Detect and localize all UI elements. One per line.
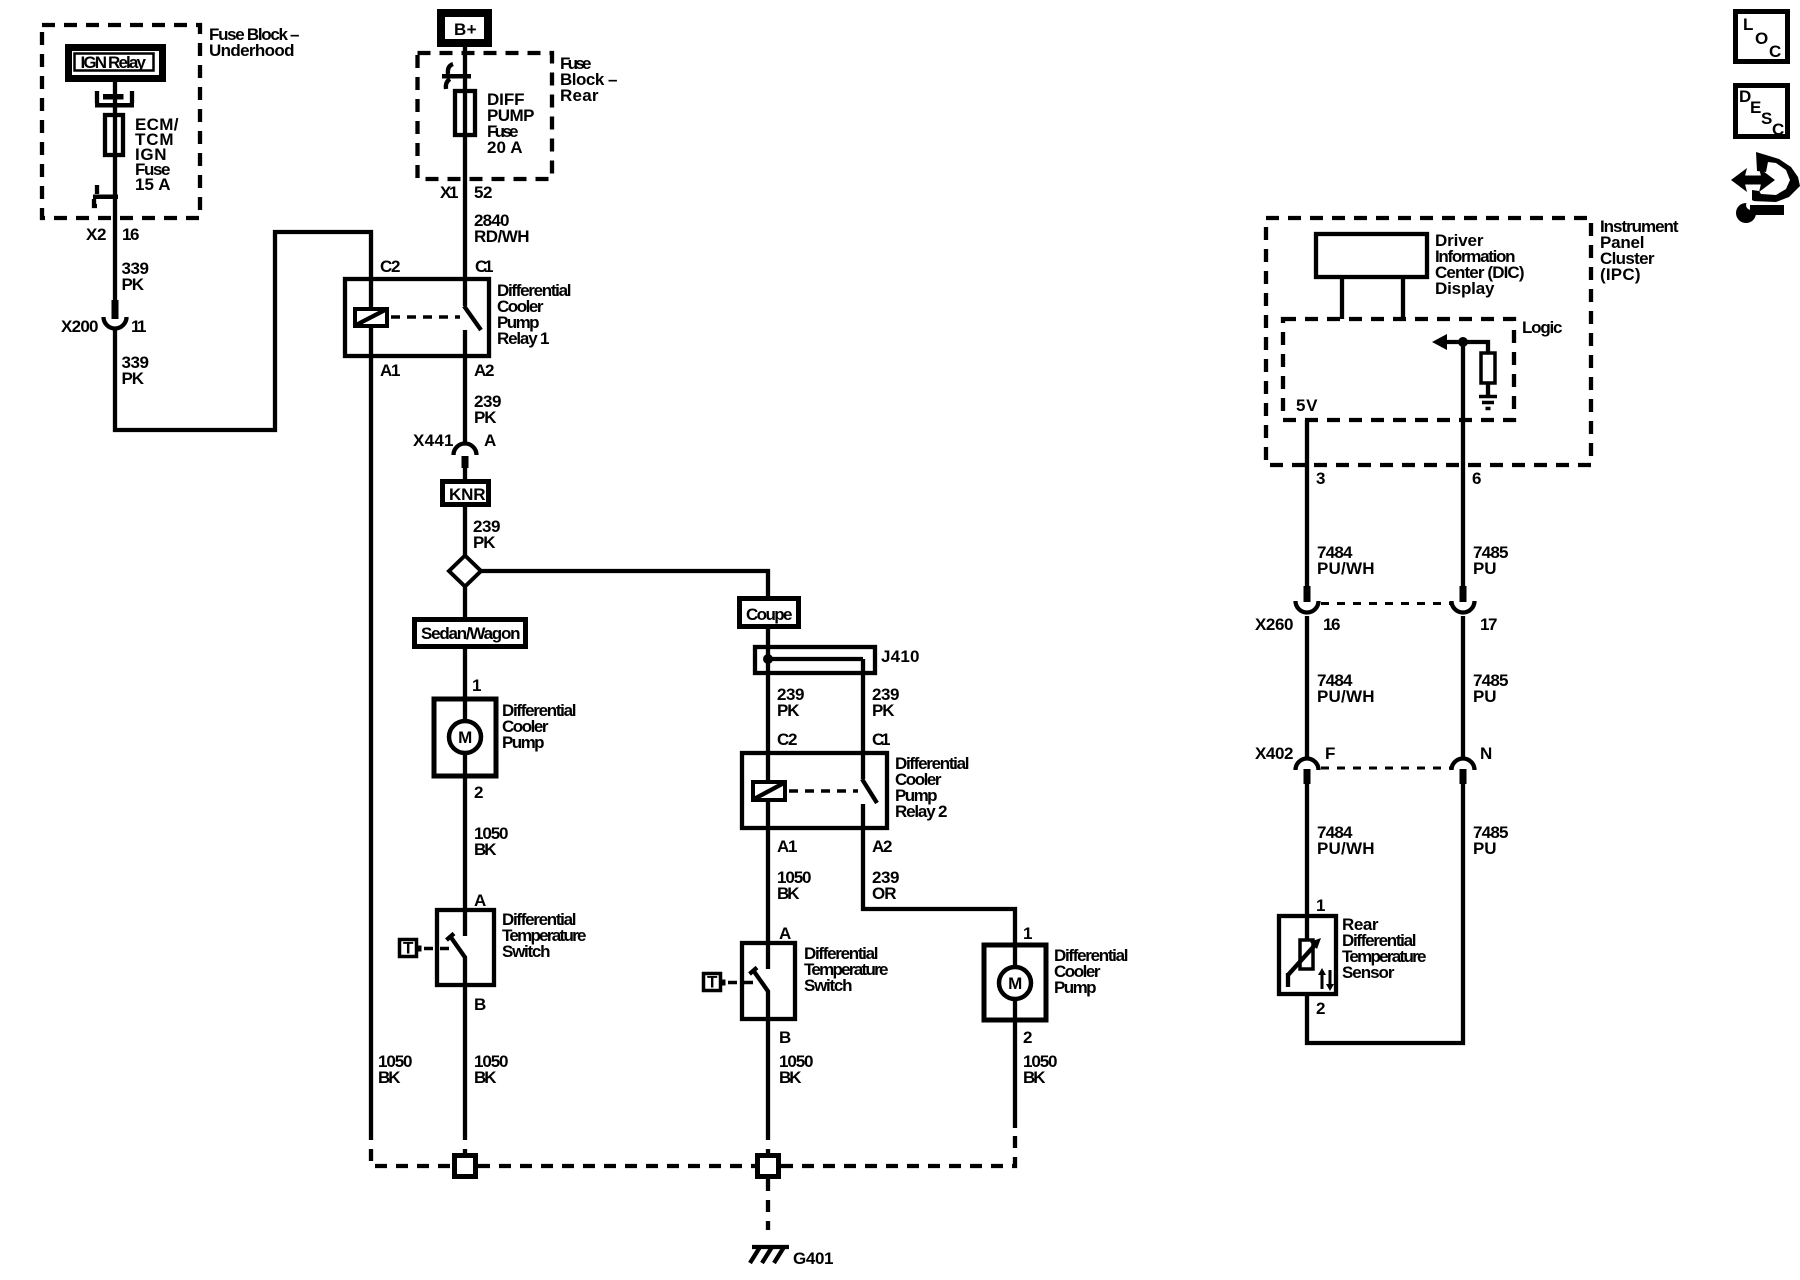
- dashed wire splice S2 to ground: [766, 1179, 770, 1230]
- Coupe tag box: [740, 599, 799, 627]
- wire splice to Coupe branch: [478, 571, 768, 596]
- svg-text:15 A: 15 A: [135, 175, 170, 194]
- DIC display box: [1316, 234, 1427, 277]
- svg-text:A1: A1: [380, 361, 400, 380]
- KNR box: [443, 482, 489, 505]
- svg-text:KNR: KNR: [449, 485, 485, 504]
- wire X260 to X402 right: [1461, 616, 1465, 758]
- dashed ground bus: [478, 1164, 755, 1168]
- svg-text:A: A: [484, 431, 496, 450]
- svg-text:Underhood: Underhood: [209, 41, 294, 60]
- temp switch1 T sensor box: [400, 939, 422, 958]
- svg-text:B: B: [474, 995, 486, 1014]
- svg-text:PK: PK: [872, 701, 895, 720]
- svg-text:1: 1: [1316, 896, 1325, 915]
- svg-text:1: 1: [472, 676, 481, 695]
- svg-text:BK: BK: [474, 1068, 497, 1087]
- svg-text:B: B: [779, 1028, 791, 1047]
- splice diamond node: [449, 556, 481, 587]
- svg-text:B+: B+: [454, 20, 477, 39]
- connector X402 socket right: [1452, 759, 1475, 771]
- wire B+ down through fuse to relay1 C1: [463, 47, 467, 306]
- sensor up-down arrows: [1318, 968, 1334, 991]
- fuse block underhood dashed box: [42, 25, 200, 218]
- Sedan/Wagon tag box: [415, 620, 526, 647]
- connector X260 pin left: [1304, 586, 1311, 602]
- wire relay K2 A1 to temp switch2: [766, 800, 770, 969]
- svg-text:X200: X200: [61, 317, 98, 336]
- logic dashed box: [1283, 319, 1514, 420]
- svg-text:Sensor: Sensor: [1342, 963, 1395, 982]
- svg-text:T: T: [707, 973, 718, 992]
- relay K1 coil: [355, 309, 387, 326]
- dashed wire temp switch1 to splice: [463, 1128, 467, 1153]
- J410 junction dot: [763, 654, 773, 664]
- motor pump1 circle: [449, 721, 481, 753]
- logic ground symbol: [1479, 397, 1497, 409]
- svg-text:Pump: Pump: [502, 733, 544, 752]
- wire IPC pin3 to X260: [1305, 420, 1309, 589]
- motor pump2 box: [984, 945, 1046, 1020]
- svg-text:6: 6: [1472, 469, 1481, 488]
- logic junction dot: [1458, 337, 1468, 347]
- wire Coupe to J410: [766, 629, 770, 782]
- LOC legend box: [1736, 12, 1788, 62]
- IGN Relay box: [69, 48, 163, 79]
- wire X260 to X402 left: [1305, 616, 1309, 758]
- svg-text:C: C: [1772, 120, 1784, 139]
- temp switch2 box: [742, 943, 795, 1019]
- temp switch2 T sensor box: [704, 973, 726, 992]
- wire Sedan/Wagon to pump1: [463, 649, 467, 721]
- svg-text:16: 16: [1323, 615, 1340, 634]
- svg-text:PK: PK: [473, 533, 496, 552]
- svg-text:Switch: Switch: [502, 942, 550, 961]
- splice pack J410 box: [755, 647, 875, 673]
- svg-text:PK: PK: [777, 701, 800, 720]
- svg-text:A1: A1: [777, 837, 797, 856]
- svg-text:2: 2: [474, 783, 483, 802]
- svg-text:PK: PK: [474, 408, 497, 427]
- IGN relay contact symbol: [95, 91, 134, 108]
- svg-text:Switch: Switch: [804, 976, 852, 995]
- svg-text:M: M: [1008, 974, 1022, 993]
- connector X200 pin: [112, 300, 119, 319]
- wire pump1 to temp switch1: [463, 753, 467, 936]
- svg-text:BK: BK: [779, 1068, 802, 1087]
- svg-text:F: F: [1325, 744, 1335, 763]
- svg-text:N: N: [1480, 744, 1492, 763]
- relay K2 coil-contact dashed link: [789, 789, 858, 793]
- svg-text:PU: PU: [1473, 559, 1496, 578]
- svg-text:2: 2: [1023, 1028, 1032, 1047]
- wire J410 to relay K2 C1: [861, 659, 865, 779]
- motor pump1 box: [434, 699, 496, 776]
- wire DIC leg left: [1340, 277, 1344, 319]
- fuse block rear terminal symbol: [442, 64, 471, 89]
- wire relay K1 A1 down: [369, 326, 373, 1128]
- wire relay K1 A2 stub: [463, 330, 467, 445]
- svg-text:Sedan/Wagon: Sedan/Wagon: [421, 624, 520, 643]
- svg-text:T: T: [403, 939, 414, 958]
- svg-text:C2: C2: [380, 257, 400, 276]
- svg-text:O: O: [1755, 29, 1768, 48]
- sensor thermistor element: [1288, 938, 1321, 987]
- connector X260 socket left: [1296, 601, 1319, 613]
- B+ power box: [441, 13, 488, 43]
- fuse DIFF PUMP 20A: [455, 91, 475, 135]
- connector X402 socket left: [1296, 759, 1319, 771]
- svg-text:PU: PU: [1473, 687, 1496, 706]
- svg-text:X260: X260: [1255, 615, 1293, 634]
- svg-text:Coupe: Coupe: [746, 605, 792, 624]
- relay K1 box: [345, 279, 489, 356]
- fuse ECM/TCM IGN 15A: [105, 115, 123, 155]
- connector X441 pin: [462, 456, 469, 468]
- J410 bus bar: [768, 657, 863, 661]
- connector X402 pin left: [1304, 769, 1311, 784]
- wire temp switch1 B down: [463, 957, 467, 1128]
- wire relay K2 A2 stub: [861, 804, 865, 828]
- wire IGN relay to fuse to X200: [113, 82, 117, 302]
- connector X402 dashed link: [1321, 767, 1450, 770]
- connector X441 socket: [454, 444, 477, 455]
- relay K1 coil-contact dashed link: [391, 315, 460, 319]
- svg-text:20 A: 20 A: [487, 138, 522, 157]
- svg-text:RD/WH: RD/WH: [474, 227, 529, 246]
- temp switch1 blade: [447, 934, 466, 959]
- motor pump2 circle: [999, 967, 1031, 999]
- svg-text:A2: A2: [872, 837, 892, 856]
- temp switch2 blade: [750, 968, 769, 993]
- svg-text:BK: BK: [777, 884, 800, 903]
- ground splice square S1: [455, 1156, 476, 1177]
- wire X200 to relay1 C2: [115, 232, 371, 430]
- svg-text:J410: J410: [881, 647, 919, 666]
- svg-text:Display: Display: [1435, 279, 1495, 298]
- svg-text:Relay 1: Relay 1: [497, 329, 549, 348]
- svg-text:A: A: [779, 924, 791, 943]
- svg-text:C1: C1: [872, 730, 890, 749]
- svg-text:52: 52: [474, 183, 492, 202]
- fuse block rear dashed box: [418, 53, 553, 179]
- wire temp switch2 B down: [766, 991, 770, 1128]
- wire logic to IPC pin6 to X260: [1461, 342, 1465, 589]
- temp switch2 T dashed link: [728, 981, 753, 985]
- connector X260 pin right: [1460, 586, 1467, 602]
- svg-text:3: 3: [1316, 469, 1325, 488]
- jump navigation icon: [1731, 152, 1800, 202]
- connector X402 pin right: [1460, 769, 1467, 784]
- svg-text:BK: BK: [1023, 1068, 1046, 1087]
- svg-text:BK: BK: [378, 1068, 401, 1087]
- wire relay K2 A2 to pump2: [863, 828, 1015, 967]
- ground splice square S2: [758, 1156, 779, 1177]
- svg-text:M: M: [458, 728, 472, 747]
- svg-text:17: 17: [1480, 615, 1497, 634]
- svg-text:OR: OR: [872, 884, 896, 903]
- svg-text:Logic: Logic: [1522, 318, 1562, 337]
- DESC legend box: [1736, 86, 1788, 140]
- dashed wire temp switch2 to splice: [766, 1128, 770, 1153]
- relay K2 box: [742, 753, 887, 828]
- svg-text:X441: X441: [413, 431, 453, 450]
- wire pump2 down: [1013, 999, 1017, 1128]
- svg-text:C1: C1: [475, 257, 493, 276]
- wire DIC leg right: [1401, 277, 1405, 319]
- wire splice to Sedan/Wagon: [463, 586, 467, 617]
- wire KNR to splice: [463, 507, 467, 556]
- rear differential temperature sensor box: [1279, 916, 1336, 994]
- temp switch1 box: [437, 910, 494, 985]
- logic pull-up resistor: [1481, 353, 1495, 383]
- ground G401 symbol: [750, 1247, 789, 1263]
- svg-text:X2: X2: [86, 225, 106, 244]
- wire X402 N down and around to sensor pin2: [1307, 784, 1463, 1043]
- svg-text:X1: X1: [440, 183, 458, 202]
- svg-text:C: C: [1769, 42, 1781, 61]
- relay K2 coil: [753, 782, 785, 800]
- svg-text:E: E: [1750, 98, 1761, 117]
- logic input arrow: [1444, 342, 1488, 353]
- svg-text:2: 2: [1316, 999, 1325, 1018]
- wrench icon: [1736, 200, 1784, 223]
- svg-text:1: 1: [1023, 924, 1032, 943]
- wire X441 to KNR: [463, 468, 467, 479]
- svg-text:X402: X402: [1255, 744, 1293, 763]
- wire X402 to sensor: [1305, 784, 1309, 940]
- svg-text:A2: A2: [474, 361, 494, 380]
- temp switch1 T dashed link: [424, 947, 449, 951]
- svg-text:11: 11: [131, 317, 146, 336]
- svg-text:C2: C2: [777, 730, 797, 749]
- svg-text:BK: BK: [474, 840, 497, 859]
- dashed ground bus right: [781, 1128, 1015, 1166]
- logic resistor to ground wire: [1486, 383, 1490, 396]
- svg-text:Pump: Pump: [1054, 978, 1096, 997]
- relay K2 contact blade: [862, 779, 877, 803]
- svg-text:IGN Relay: IGN Relay: [81, 53, 147, 72]
- dashed ground wire left: [371, 1128, 452, 1166]
- fuse block lower terminal symbol: [93, 185, 118, 206]
- svg-text:L: L: [1743, 15, 1753, 34]
- svg-text:16: 16: [122, 225, 139, 244]
- svg-text:PK: PK: [122, 369, 145, 388]
- connector X260 dashed link: [1321, 602, 1450, 605]
- instrument panel cluster dashed box: [1266, 218, 1591, 465]
- connector X200 socket: [104, 317, 127, 329]
- connector X260 socket right: [1452, 601, 1475, 613]
- svg-text:PU/WH: PU/WH: [1317, 559, 1374, 578]
- svg-text:A: A: [474, 891, 486, 910]
- svg-text:Rear: Rear: [560, 86, 599, 105]
- svg-text:PU/WH: PU/WH: [1317, 839, 1374, 858]
- relay K1 contact blade: [464, 306, 481, 330]
- svg-text:G401: G401: [793, 1249, 833, 1268]
- svg-text:5V: 5V: [1296, 396, 1318, 415]
- svg-text:PU: PU: [1473, 839, 1496, 858]
- svg-text:PU/WH: PU/WH: [1317, 687, 1374, 706]
- svg-text:Relay 2: Relay 2: [895, 802, 947, 821]
- svg-text:PK: PK: [122, 275, 145, 294]
- svg-text:(IPC): (IPC): [1600, 265, 1640, 284]
- svg-text:S: S: [1761, 109, 1772, 128]
